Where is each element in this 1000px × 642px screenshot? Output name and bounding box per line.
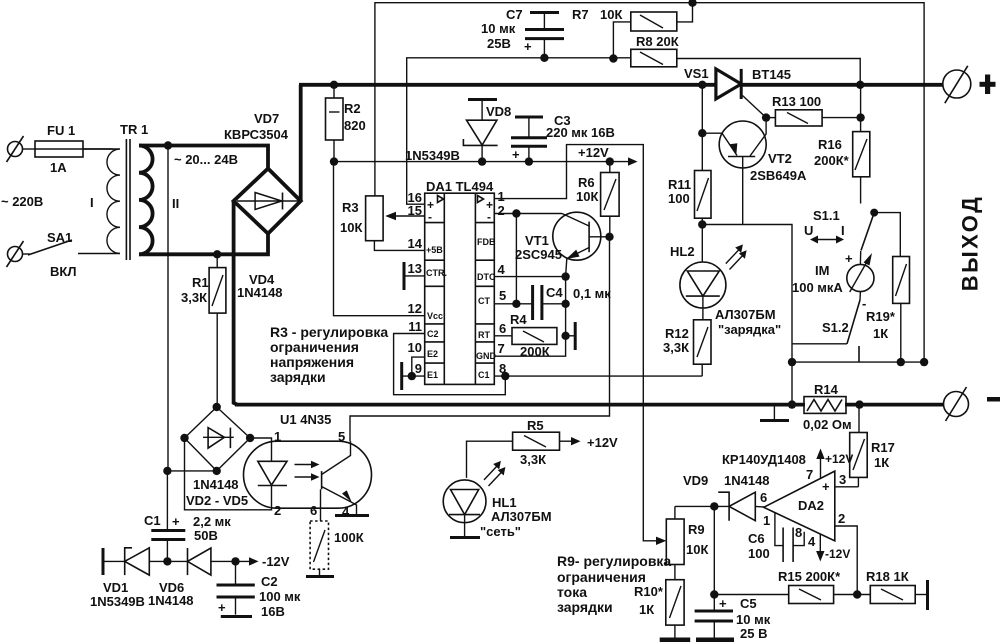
svg-text:-12V: -12V	[262, 554, 290, 569]
output terminal +	[943, 66, 996, 103]
svg-text:R1: R1	[192, 275, 209, 290]
node R1 top	[213, 250, 221, 258]
svg-text:R8 20К: R8 20К	[636, 34, 679, 49]
svg-text:R9- регулировка: R9- регулировка	[557, 553, 671, 569]
svg-text:1N4148: 1N4148	[237, 285, 283, 300]
svg-text:7: 7	[806, 467, 813, 482]
ground main	[760, 405, 789, 421]
svg-text:2,2 мк: 2,2 мк	[193, 514, 231, 529]
svg-text:S1.2: S1.2	[822, 320, 849, 335]
svg-text:ВЫХОД: ВЫХОД	[958, 195, 983, 292]
wire R9 top to VD9 node	[675, 505, 729, 507]
svg-text:100: 100	[748, 546, 770, 561]
svg-text:VD2 - VD5: VD2 - VD5	[186, 493, 248, 508]
capacitor C4 0.1uF	[533, 285, 612, 320]
capacitor C3 220uF 16V	[511, 113, 615, 162]
svg-text:+: +	[845, 251, 853, 266]
svg-text:3,3К: 3,3К	[181, 290, 207, 305]
svg-text:АЛ307БМ: АЛ307БМ	[715, 307, 776, 322]
transformer core	[126, 139, 130, 260]
svg-text:SA1: SA1	[47, 230, 72, 245]
node pin9/pin10	[408, 372, 416, 380]
svg-text:1К: 1К	[874, 455, 889, 470]
svg-text:1N4148: 1N4148	[724, 473, 770, 488]
resistor R4 200K	[494, 312, 557, 359]
wire terminal to fuse	[23, 148, 37, 150]
potentiometer R9 10K	[666, 506, 708, 579]
input terminal X1 (~220V top)	[7, 136, 24, 162]
svg-text:3,3К: 3,3К	[520, 452, 546, 467]
svg-text:+: +	[524, 39, 532, 54]
svg-text:+: +	[822, 479, 830, 494]
wire R9 wiper arrow	[643, 536, 666, 545]
pin numbers left	[408, 190, 423, 376]
svg-text:2: 2	[838, 511, 845, 526]
resistor R19* 1K	[866, 257, 910, 363]
svg-text:14: 14	[408, 236, 423, 251]
svg-text:R5: R5	[527, 418, 544, 433]
svg-text:+12V: +12V	[825, 452, 853, 466]
feedback rail (top)	[375, 3, 924, 362]
svg-text:1N5349В: 1N5349В	[90, 594, 145, 609]
wire pin4 to VT1 emitter	[494, 276, 565, 278]
node pin8	[501, 372, 509, 380]
svg-text:6: 6	[310, 503, 317, 518]
svg-text:1: 1	[274, 429, 281, 444]
svg-text:I: I	[841, 223, 845, 238]
resistor R2 820	[326, 85, 366, 162]
svg-text:TR 1: TR 1	[120, 122, 148, 137]
wire pin9 + ground	[402, 362, 425, 390]
svg-text:100 мк: 100 мк	[259, 589, 301, 604]
svg-text:CT: CT	[478, 296, 490, 306]
svg-text:R7: R7	[572, 7, 589, 22]
svg-text:"сеть": "сеть"	[480, 524, 521, 539]
node R4 right	[561, 332, 569, 340]
svg-text:1К: 1К	[873, 326, 888, 341]
svg-text:тока: тока	[557, 584, 587, 600]
svg-text:+: +	[512, 147, 520, 162]
wire opto LED cathode to bridge left	[185, 438, 272, 510]
svg-text:+12V: +12V	[587, 435, 618, 450]
svg-text:+12V: +12V	[578, 145, 609, 160]
svg-text:R14: R14	[814, 382, 839, 397]
wire VT2 base run to S1.2 drop	[702, 225, 792, 405]
resistor R10* 1K	[634, 580, 684, 638]
resistor R16 200K*	[814, 85, 870, 204]
opamp DA2 KR140UD1408	[722, 452, 835, 541]
DA2 pin7 +12V arrow	[806, 449, 853, 483]
svg-text:FDB: FDB	[477, 237, 496, 247]
resistor 100K (dashed)	[310, 521, 364, 575]
svg-text:0,02 Ом: 0,02 Ом	[803, 417, 852, 432]
svg-text:R11: R11	[668, 177, 691, 192]
node VT2 emitter	[698, 129, 706, 137]
node C1 bottom / VD1 / VD6	[163, 557, 171, 565]
note R3 adjustment text	[270, 324, 388, 385]
switch S1.1	[804, 208, 900, 257]
svg-text:зарядки: зарядки	[557, 599, 613, 615]
svg-text:+5B: +5B	[426, 245, 443, 255]
svg-text:VD7: VD7	[254, 111, 279, 126]
wire pin8	[494, 375, 702, 377]
svg-text:R15 200К*: R15 200К*	[778, 569, 841, 584]
node C1 top	[163, 467, 171, 475]
svg-text:зарядки: зарядки	[270, 369, 326, 385]
resistor R8 20K	[631, 34, 679, 67]
svg-text:R9: R9	[688, 522, 705, 537]
svg-text:IM: IM	[815, 263, 829, 278]
svg-text:DA1 TL494: DA1 TL494	[426, 179, 494, 194]
svg-text:+: +	[172, 514, 180, 529]
svg-text:HL1: HL1	[492, 495, 517, 510]
svg-text:3,3К: 3,3К	[663, 340, 689, 355]
resistor R18 1K	[866, 569, 926, 604]
ground HL1	[450, 536, 480, 539]
svg-text:II: II	[172, 196, 179, 211]
resistor R6 10K	[576, 162, 619, 237]
DA2 pin3 wire	[835, 472, 859, 487]
svg-text:ограничения: ограничения	[270, 339, 359, 355]
note R9 adjustment text	[557, 553, 671, 615]
resistor R15 200K*	[714, 569, 870, 604]
transformer secondary winding II	[139, 146, 179, 255]
svg-text:I: I	[90, 195, 94, 210]
resistor R12 3.3K	[663, 320, 711, 376]
node top rail / R7	[688, 0, 696, 7]
svg-text:6: 6	[499, 321, 506, 336]
svg-text:820: 820	[344, 118, 366, 133]
svg-text:C1: C1	[144, 513, 161, 528]
node y362/feedback riser	[920, 358, 928, 366]
svg-text:напряжения: напряжения	[270, 354, 354, 370]
svg-text:200К*: 200К*	[814, 153, 850, 168]
node R15/R18/pin2	[853, 590, 861, 598]
svg-text:-: -	[428, 210, 432, 224]
node VT1 collector / R6	[605, 233, 613, 241]
wire pin2 to pin5	[515, 214, 517, 304]
svg-text:50В: 50В	[194, 528, 218, 543]
svg-text:5: 5	[499, 288, 506, 303]
svg-text:6: 6	[760, 490, 767, 505]
wire VT1 collector chain to optocoupler	[350, 237, 610, 442]
svg-text:8: 8	[795, 525, 802, 540]
wire pin10	[412, 357, 425, 376]
meter IM 100uA	[792, 251, 874, 311]
wire transformer top to opto bridge	[167, 146, 169, 472]
wire pin15 wiper arrow	[385, 212, 425, 220]
svg-text:10К: 10К	[600, 7, 622, 22]
svg-text:3: 3	[839, 472, 846, 487]
svg-text:13: 13	[408, 261, 422, 276]
node C4 right	[561, 300, 569, 308]
svg-text:1К: 1К	[639, 602, 654, 617]
svg-text:HL2: HL2	[670, 244, 695, 259]
svg-text:VD9: VD9	[683, 473, 708, 488]
node VD9 / R9 / C5	[710, 502, 718, 510]
capacitor C7 10uF 25V	[481, 7, 564, 58]
resistor R7 10K	[572, 7, 677, 31]
node S1.2 drop on bus	[788, 400, 796, 408]
opto LED	[258, 461, 287, 485]
node C7 bottom	[540, 54, 548, 62]
resistor R13 100	[766, 94, 861, 126]
svg-text:R16: R16	[818, 137, 842, 152]
wire pin1 to current-feedback	[494, 145, 643, 536]
svg-text:2: 2	[498, 203, 505, 218]
input terminal X2 (SA1 side)	[7, 241, 24, 267]
-12V arrow	[249, 554, 290, 569]
svg-text:~ 220В: ~ 220В	[1, 194, 43, 209]
svg-text:4: 4	[498, 262, 506, 277]
svg-text:R18 1К: R18 1К	[866, 569, 909, 584]
svg-text:R19*: R19*	[866, 309, 896, 324]
pin numbers right	[498, 189, 507, 376]
svg-text:~ 20... 24В: ~ 20... 24В	[174, 152, 238, 167]
svg-text:10К: 10К	[686, 542, 708, 557]
node R14 right / R17	[855, 400, 863, 408]
wire meter common (y=362)	[792, 361, 924, 363]
svg-text:25 В: 25 В	[740, 626, 767, 641]
svg-text:DTC: DTC	[477, 272, 496, 282]
svg-text:АЛ307БМ: АЛ307БМ	[491, 509, 552, 524]
svg-text:"зарядка": "зарядка"	[718, 322, 781, 337]
svg-text:1N4148: 1N4148	[148, 593, 194, 608]
svg-text:R2: R2	[344, 101, 361, 116]
svg-text:2SC945: 2SC945	[515, 247, 562, 262]
node R6 on rail	[606, 157, 614, 165]
svg-text:0,1 мк: 0,1 мк	[573, 286, 611, 301]
svg-text:RT: RT	[478, 330, 490, 340]
svg-text:1N4148: 1N4148	[193, 477, 239, 492]
svg-text:-12V: -12V	[825, 547, 850, 561]
svg-text:2: 2	[274, 503, 281, 518]
zener VD8 1N5349B	[405, 100, 511, 164]
svg-text:1А: 1А	[50, 160, 67, 175]
svg-text:E2: E2	[427, 349, 438, 359]
transistor VT2 2SB649A	[702, 118, 807, 225]
diode VD6 1N4148	[148, 548, 251, 608]
transistor VT1 2SC945	[515, 212, 610, 276]
bridge rectifier VD7	[224, 111, 301, 234]
svg-text:100 мкА: 100 мкА	[792, 280, 843, 295]
node R8/R16 on bus	[856, 81, 864, 89]
node bridge top	[213, 403, 221, 411]
svg-text:-: -	[487, 210, 491, 224]
ground R10	[660, 638, 691, 642]
svg-text:100К: 100К	[334, 530, 364, 545]
output terminal -	[944, 387, 1000, 421]
svg-text:VD8: VD8	[486, 104, 511, 119]
svg-text:10 мк: 10 мк	[481, 21, 516, 36]
optocoupler U1 4N35	[244, 412, 372, 519]
node R7/R8	[609, 54, 617, 62]
capacitor C5 10uF 25V	[695, 506, 771, 641]
svg-text:ограничения: ограничения	[557, 569, 646, 585]
capacitor C6 100 (pins 1-8)	[748, 512, 804, 562]
node pin2	[512, 209, 520, 217]
svg-text:R4: R4	[510, 312, 527, 327]
svg-text:R3: R3	[342, 200, 359, 215]
svg-text:C5: C5	[740, 596, 757, 611]
svg-text:16В: 16В	[261, 604, 285, 619]
wire bridge plus riser (thick)	[299, 85, 303, 201]
svg-text:U1 4N35: U1 4N35	[280, 412, 331, 427]
svg-text:1: 1	[498, 189, 505, 204]
resistor R5 3.3K	[467, 418, 619, 478]
node transformer top / optocoupler feed	[164, 141, 172, 149]
svg-text:C7: C7	[506, 7, 523, 22]
svg-text:GND: GND	[476, 351, 497, 361]
node R19 bottom	[897, 358, 905, 366]
svg-text:R3 - регулировка: R3 - регулировка	[270, 324, 388, 340]
svg-text:9: 9	[415, 361, 422, 376]
svg-text:10К: 10К	[340, 220, 362, 235]
opto phototransistor	[322, 441, 357, 514]
svg-text:100: 100	[668, 191, 690, 206]
ground C2	[221, 615, 252, 618]
svg-text:R12: R12	[665, 326, 689, 341]
node bridge left	[180, 434, 188, 442]
svg-text:C2: C2	[427, 329, 439, 339]
bus negative (thick)	[235, 403, 805, 407]
ground 100K	[306, 575, 334, 578]
svg-text:U: U	[804, 223, 813, 238]
wire pin4 node down	[565, 277, 567, 336]
svg-text:10 мк: 10 мк	[736, 612, 771, 627]
svg-text:R10*: R10*	[634, 584, 664, 599]
svg-text:VS1: VS1	[684, 66, 709, 81]
node VT2/R11 on bus	[698, 81, 706, 89]
node VS1 gate / R13	[762, 113, 770, 121]
resistor R17 1K	[850, 405, 895, 487]
svg-text:C1: C1	[478, 370, 490, 380]
ground VD1	[102, 548, 105, 575]
bus +24V (thick)	[299, 83, 716, 87]
thyristor VS1 BT145	[684, 66, 791, 118]
svg-text:VT2: VT2	[768, 151, 792, 166]
svg-text:R6: R6	[578, 175, 595, 190]
wire bridge right to opto pin1	[250, 438, 271, 461]
transformer primary winding I	[83, 149, 120, 253]
ground R4	[566, 322, 576, 350]
wire pin7 GND riser	[494, 336, 565, 356]
svg-text:Vcc: Vcc	[427, 311, 443, 321]
svg-text:R17: R17	[871, 440, 895, 455]
wire secondary bottom (thick)	[139, 234, 268, 254]
+12V rail	[334, 145, 638, 166]
DA2 pin4 -12V arrow	[808, 534, 850, 562]
svg-text:1: 1	[763, 513, 770, 528]
svg-text:2SB649A: 2SB649A	[750, 168, 807, 183]
svg-text:12: 12	[408, 301, 422, 316]
node +12V / R2 / pin12	[330, 157, 338, 165]
node C3 on rail	[525, 157, 533, 165]
fuse FU1	[35, 123, 113, 175]
capacitor C2 100uF 16V	[217, 561, 301, 619]
svg-text:CTR.: CTR.	[426, 268, 447, 278]
svg-text:VT1: VT1	[525, 233, 549, 248]
DA2 pin2 wire	[835, 511, 857, 595]
svg-text:+: +	[719, 596, 727, 611]
wire pin16 riser to divider	[407, 58, 631, 204]
node R11 bottom / HL2 / VT2 base	[698, 220, 706, 228]
wire pin11 loop to pin8	[394, 334, 506, 395]
node R2 top on bus	[330, 81, 338, 89]
wire opto pin6 to 100K	[320, 489, 322, 521]
node R13 right	[856, 113, 864, 121]
resistor R1 3.3K	[181, 255, 226, 407]
IC DA1 TL494 body	[425, 179, 497, 384]
wire bridge minus drop (thick)	[234, 202, 237, 405]
svg-text:VD1: VD1	[103, 580, 128, 595]
capacitor C1 2.2uF 50V	[144, 471, 231, 562]
zener VD1 1N5349B	[90, 548, 167, 609]
switch SA1	[23, 230, 121, 279]
svg-text:10К: 10К	[576, 189, 598, 204]
wire R7 left to R8 node	[613, 22, 630, 59]
svg-text:10: 10	[408, 340, 422, 355]
node y362 left	[788, 358, 796, 366]
svg-text:+: +	[218, 600, 226, 615]
svg-text:BT145: BT145	[752, 67, 791, 82]
wire pin5	[494, 303, 532, 305]
svg-text:E1: E1	[427, 370, 438, 380]
svg-text:11: 11	[408, 319, 422, 334]
wire pin2	[494, 213, 562, 215]
wire R8 right to +bus	[677, 59, 860, 85]
node pin5/C4	[512, 300, 520, 308]
node C2	[231, 557, 239, 565]
wire secondary top (thick)	[139, 146, 268, 171]
svg-text:КВРС3504: КВРС3504	[224, 127, 289, 142]
node bridge right	[246, 434, 254, 442]
potentiometer R3 10K	[340, 196, 383, 241]
ground pin13	[404, 262, 425, 290]
svg-text:S1.1: S1.1	[813, 208, 840, 223]
wire bridge bottom to C1 node	[167, 470, 216, 472]
LED HL1 AL307BM "set"	[443, 461, 551, 539]
ground opto pin4	[335, 514, 369, 517]
svg-text:25В: 25В	[487, 36, 511, 51]
shunt R14 0.02 Ohm	[803, 382, 852, 432]
node C5 / R15	[710, 590, 718, 598]
wire pin12 to +12V node	[334, 162, 425, 316]
resistor R11 100	[668, 171, 711, 263]
svg-text:220 мк 16В: 220 мк 16В	[546, 125, 615, 140]
ground C5	[696, 638, 734, 642]
svg-text:КР140УД1408: КР140УД1408	[722, 452, 806, 467]
diode VD9 1N4148 (zener-wing)	[683, 473, 770, 521]
label VD4 1N4148	[237, 272, 283, 300]
svg-text:ВКЛ: ВКЛ	[50, 264, 76, 279]
node VD8 on rail	[478, 157, 486, 165]
svg-text:DA2: DA2	[798, 498, 824, 513]
svg-text:7: 7	[498, 341, 505, 356]
node bridge bottom	[213, 467, 221, 475]
opto light arrows	[295, 461, 320, 481]
svg-text:1N5349В: 1N5349В	[405, 148, 460, 163]
wire bus to VT2 emitter / R11	[701, 85, 703, 171]
wire R3 bottom to pin14	[374, 241, 424, 251]
LED HL2 AL307BM	[670, 244, 781, 337]
node pin4	[561, 272, 569, 280]
switch S1.2	[792, 292, 861, 363]
ground R18	[926, 580, 929, 610]
wire R7 right leg	[677, 3, 693, 22]
svg-text:C6: C6	[748, 531, 765, 546]
svg-text:5: 5	[338, 429, 345, 444]
